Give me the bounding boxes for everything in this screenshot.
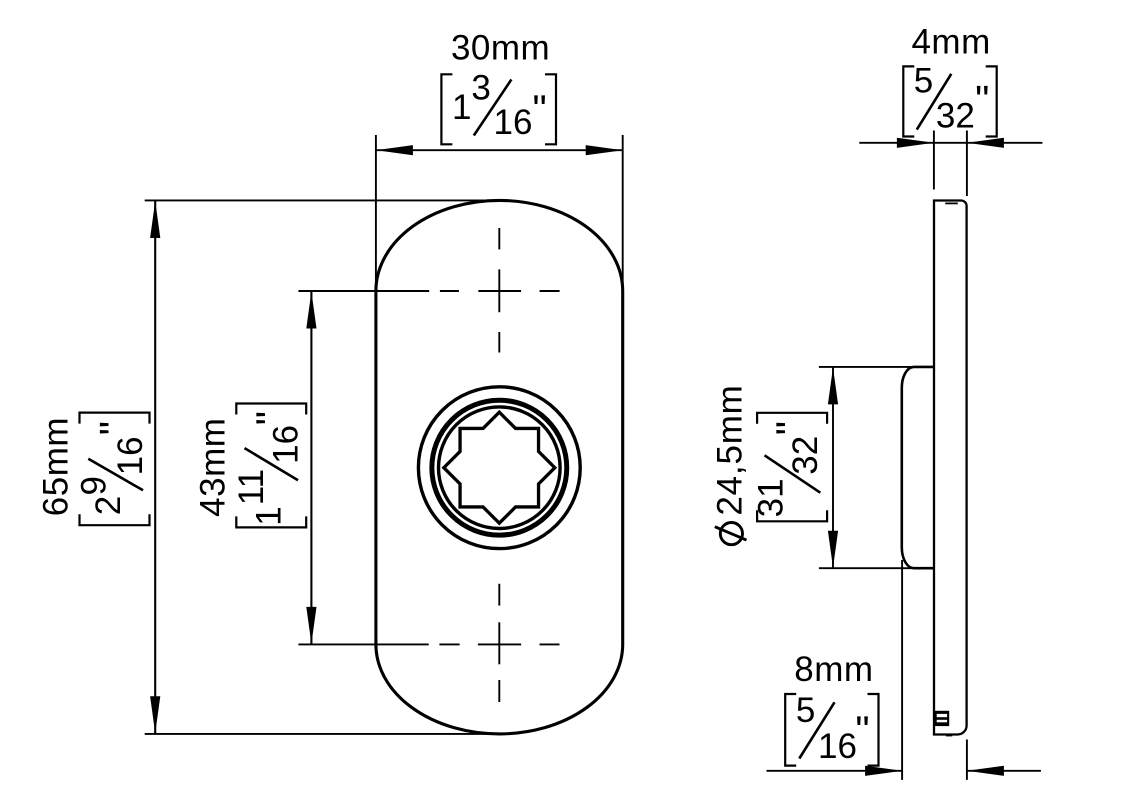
diameter symbol [720,523,742,545]
30mm dimension line [376,149,623,151]
4mm dimension extension lines [933,131,935,190]
svg-text:": " [855,709,869,753]
svg-text:9: 9 [75,476,114,495]
svg-text:30mm: 30mm [451,28,550,67]
43mm dimension line [310,291,312,644]
30mm dimension extension lines [375,135,377,296]
65mm dimension extension lines [145,199,501,201]
svg-text:": " [769,421,813,435]
8mm extension lines [901,560,903,780]
svg-text:": " [249,411,293,425]
vertical centerline [498,228,500,702]
svg-text:1: 1 [452,88,471,127]
chamfer tick on plate top [945,202,958,204]
outer circle of boss [418,387,580,549]
65mm label (rotated) [37,413,150,526]
svg-text:2: 2 [89,496,128,515]
8mm dimension line [767,770,903,772]
svg-text:16: 16 [818,727,857,766]
svg-text:24,5mm: 24,5mm [711,384,750,515]
svg-text:1: 1 [250,506,289,525]
side view plate outline [934,200,967,734]
dia 24.5mm label (rotated) [711,384,828,544]
inner circle [439,407,561,529]
4mm dimension line [859,142,1042,144]
svg-text:32: 32 [786,436,825,475]
svg-text:32: 32 [936,96,975,135]
43mm label (rotated) [194,404,307,528]
4mm label [903,23,996,137]
svg-text:11: 11 [232,469,271,505]
svg-text:16: 16 [266,425,305,464]
svg-text:": " [93,421,137,435]
horizontal centerline top arc [298,290,559,292]
boss bump on side view [902,367,934,568]
svg-text:65mm: 65mm [37,417,76,516]
svg-text:8mm: 8mm [794,650,873,689]
svg-text:4mm: 4mm [911,23,990,62]
svg-text:5: 5 [796,691,815,730]
svg-text:43mm: 43mm [194,418,233,517]
middle thick circle [432,400,567,535]
svg-text:5: 5 [914,62,933,101]
svg-text:16: 16 [111,436,150,475]
30mm label [441,28,556,144]
dia 24.5mm dimension line [832,367,834,568]
65mm dimension line [154,200,156,734]
8mm label [785,650,878,766]
svg-text:": " [975,79,989,123]
8-point star spindle hole [444,412,555,523]
spring clip detail [934,711,949,726]
svg-text:": " [533,88,547,132]
horizontal centerline bottom arc [298,643,559,645]
svg-text:16: 16 [494,103,533,142]
svg-text:3: 3 [471,69,490,108]
dia 24.5mm extension lines [819,366,912,368]
svg-text:31: 31 [752,478,791,517]
front view oval plate outline [376,200,623,734]
